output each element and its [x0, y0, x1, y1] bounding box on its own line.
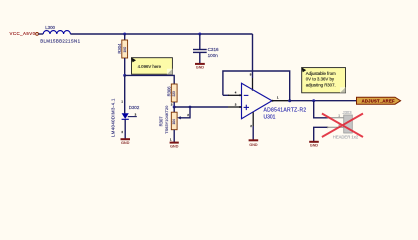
- svg-text:U301: U301: [264, 114, 276, 120]
- svg-text:GND: GND: [310, 144, 319, 148]
- wire branch to R306: [125, 75, 175, 84]
- wire output stub: [272, 100, 290, 102]
- svg-text:GND: GND: [170, 144, 179, 148]
- svg-text:GND: GND: [196, 66, 205, 70]
- svg-text:ADJUST_AREF: ADJUST_AREF: [362, 98, 395, 103]
- wire rail to C316: [199, 34, 201, 49]
- wire rail to R304: [124, 34, 126, 40]
- note Adjustable from 0V to 3.36V: [301, 67, 345, 93]
- wire tap down to header J303: [314, 101, 327, 118]
- svg-text:HEADER 1x2: HEADER 1x2: [333, 134, 359, 139]
- svg-text:D302: D302: [129, 105, 140, 110]
- inductor L300: [43, 31, 70, 34]
- port circle (off-sheet connector): [36, 33, 39, 36]
- pin 3 stub of D302: [128, 116, 137, 118]
- ground under D302: [121, 138, 131, 140]
- wire pin2 to GND: [314, 127, 327, 141]
- port ADJUST_AREF: [357, 97, 401, 104]
- wire R304 to junction: [124, 58, 126, 75]
- wire wiper loop: [180, 107, 190, 118]
- svg-text:TS63Y104KT20: TS63Y104KT20: [165, 106, 169, 134]
- svg-text:GND: GND: [249, 143, 258, 147]
- wire junction down to D302: [124, 75, 126, 113]
- wire pin3 input from divider: [174, 106, 228, 108]
- svg-text:4.096V here: 4.096V here: [138, 64, 162, 69]
- svg-text:1K0: 1K0: [123, 47, 127, 53]
- svg-text:0V to 3.36V by: 0V to 3.36V by: [306, 77, 335, 82]
- wire V+ drop to op-amp pin 8: [252, 34, 254, 78]
- wire junction to R307: [173, 107, 175, 112]
- svg-text:LM4040DIM3-4.1: LM4040DIM3-4.1: [110, 98, 115, 137]
- pin 2 stub of J303: [327, 126, 344, 128]
- resistor R304: [122, 40, 128, 58]
- potentiometer R307: [171, 112, 177, 130]
- not-fitted red X over J303: [322, 114, 363, 138]
- wire R307 to GND: [173, 130, 175, 142]
- svg-text:VCC_A5V0: VCC_A5V0: [10, 31, 36, 36]
- junction at R304 top: [123, 33, 126, 36]
- wire port to L300: [38, 33, 43, 35]
- wiper arrowhead: [177, 116, 181, 119]
- wire D302 to GND: [124, 119, 126, 138]
- svg-text:R307: R307: [158, 116, 163, 127]
- resistor R306: [171, 84, 177, 102]
- ground under R307: [170, 142, 179, 144]
- op-amp U301: [242, 83, 273, 118]
- junction output node: [288, 99, 291, 102]
- note 4.096V here: [131, 57, 172, 74]
- wire output to port: [290, 100, 357, 102]
- junction node: [123, 74, 126, 77]
- minus symbol: [244, 94, 249, 96]
- pin 1 stub of J303: [327, 117, 344, 119]
- svg-text:adjusting R307.: adjusting R307.: [306, 83, 336, 88]
- ground under op-amp: [249, 139, 259, 141]
- svg-text:R306: R306: [166, 86, 171, 97]
- svg-text:223: 223: [172, 91, 176, 97]
- svg-text:GND: GND: [121, 141, 130, 145]
- svg-text:AD8541ARTZ-R2: AD8541ARTZ-R2: [264, 107, 307, 113]
- svg-text:L300: L300: [45, 25, 55, 30]
- wire V- pin to GND: [252, 112, 254, 126]
- svg-text:C316: C316: [208, 47, 219, 52]
- svg-text:R304: R304: [117, 43, 122, 54]
- wire feedback loop: [223, 71, 290, 101]
- svg-text:Adjustable from: Adjustable from: [306, 71, 336, 76]
- wire main top rail: [70, 33, 252, 35]
- svg-text:J303: J303: [343, 110, 353, 115]
- wire C316 to GND: [199, 52, 201, 63]
- wire pin4 stub: [223, 94, 229, 96]
- ground under J303: [309, 141, 319, 143]
- svg-text:100n: 100n: [208, 53, 219, 58]
- plus symbol: [244, 106, 249, 108]
- junction node divider: [173, 106, 176, 109]
- ground under C316: [195, 63, 205, 65]
- svg-text:BLM15BB221SN1: BLM15BB221SN1: [40, 38, 80, 43]
- capacitor C316: [193, 49, 207, 51]
- header J303 body: [344, 115, 353, 133]
- svg-text:104: 104: [172, 119, 176, 125]
- junction at C316: [198, 33, 201, 36]
- junction header tap: [312, 99, 315, 102]
- zener diode D302 (LM4040): [122, 113, 129, 119]
- wire R306 to junction: [173, 102, 175, 107]
